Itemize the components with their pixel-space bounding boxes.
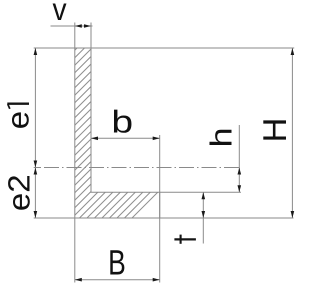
wire: bottom edge extension line bbox=[34, 217, 294, 219]
dimension H line bbox=[291, 48, 293, 218]
dimension h line bbox=[238, 125, 240, 192]
wire: B left extension bbox=[74, 218, 76, 283]
wire: v left extension bbox=[74, 23, 76, 49]
wire: v right extension bbox=[90, 23, 92, 49]
dimension t line bbox=[202, 192, 204, 243]
svg-text:e2: e2 bbox=[2, 174, 36, 211]
dimension B line bbox=[75, 279, 160, 281]
svg-text:h: h bbox=[205, 127, 239, 147]
svg-text:H: H bbox=[256, 118, 293, 143]
svg-text:v: v bbox=[52, 0, 66, 27]
L-profile outline bbox=[75, 48, 160, 218]
svg-text:e: e bbox=[1, 111, 35, 129]
dimension b line bbox=[91, 137, 160, 139]
wire: right vertical extension (b / B) bbox=[159, 135, 161, 283]
node: centroid axis tick at e1/e2 boundary bbox=[34, 167, 41, 169]
wire: top edge extension line (e1 left to H right) bbox=[34, 47, 295, 49]
label t bbox=[174, 235, 196, 244]
node: centroid dash-dot line bbox=[44, 167, 239, 169]
wire: leg top edge extension to right bbox=[160, 191, 241, 193]
hatching of profile bbox=[0, 47, 303, 218]
svg-text:b: b bbox=[111, 103, 133, 139]
dimension e1/e2 line bbox=[34, 48, 36, 218]
svg-text:B: B bbox=[108, 244, 126, 283]
dimension v line bbox=[51, 25, 93, 27]
